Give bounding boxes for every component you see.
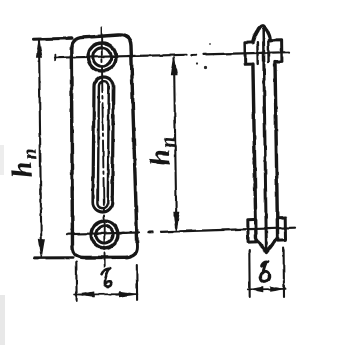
top nipple hole outer circle	[88, 43, 116, 71]
bottom extension line (full-height dimension)	[35, 256, 73, 259]
top flange inner edge left	[256, 42, 259, 64]
extension line b left	[248, 250, 250, 297]
arrowhead up (middle dimension)	[171, 56, 177, 75]
side view column left edge	[253, 64, 256, 240]
extension line b right	[283, 247, 285, 297]
top horizontal centerline (through nipple axes)	[55, 55, 187, 58]
arrowhead left (b dimension)	[250, 287, 264, 292]
side view middle rib line	[263, 30, 266, 251]
centerline end tick	[54, 55, 56, 61]
label b (depth dimension)	[260, 262, 271, 283]
dimension line b	[248, 288, 286, 291]
dimension line h_n middle	[174, 58, 176, 228]
arrowhead down (middle dimension)	[174, 212, 180, 230]
dimension line l	[75, 293, 138, 295]
arrowhead up (left dimension)	[36, 39, 42, 58]
water channel slot inner contour	[98, 81, 109, 208]
side view top-left nipple boss	[245, 42, 253, 64]
bottom nipple hole inner circle	[96, 226, 113, 243]
bottom nipple hole outer circle	[91, 221, 118, 248]
label h_n (middle dimension)	[143, 135, 182, 167]
extension line l right	[136, 265, 138, 300]
arrowhead right (b dimension)	[271, 287, 284, 292]
side view bottom-right nipple boss	[277, 218, 285, 241]
side view bottom V point	[256, 238, 277, 253]
label l (width dimension, script ell)	[102, 268, 112, 286]
water channel slot outer contour	[93, 77, 113, 212]
top flange inner edge right	[267, 40, 270, 62]
side view column right edge	[275, 62, 278, 238]
top nipple hole inner circle	[93, 48, 111, 66]
scan smudge left edge	[0, 295, 5, 345]
front view outline (radiator section body)	[71, 35, 137, 258]
label h_n (left dimension)	[5, 147, 44, 179]
bottom horizontal centerline (through nipple axes)	[67, 233, 139, 235]
arrowhead right (l dimension)	[119, 292, 137, 297]
side view top-right nipple boss	[271, 40, 282, 62]
scan speckles	[141, 43, 211, 69]
arrowhead down (left dimension)	[39, 239, 45, 257]
extension line l left	[75, 262, 77, 301]
arrowhead left (l dimension)	[76, 292, 94, 297]
vertical centerline of front view	[102, 28, 105, 266]
top extension line (full-height dimension)	[34, 38, 73, 39]
side view top dome	[253, 26, 270, 43]
dimension line h_n left	[39, 41, 41, 253]
side view bottom-left nipple boss	[248, 219, 256, 242]
